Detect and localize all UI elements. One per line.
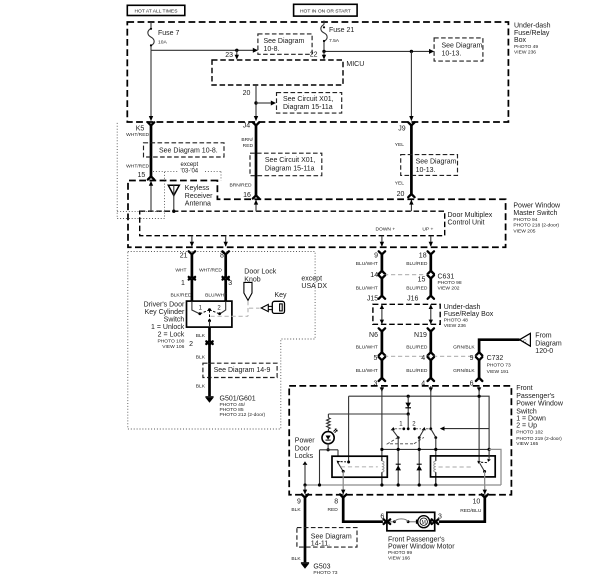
- diode D1 (top center): [405, 396, 411, 414]
- label HOT AT ALL TIMES: [127, 5, 185, 15]
- svg-text:21: 21: [180, 252, 188, 259]
- svg-text:9: 9: [374, 252, 378, 259]
- under-dash fuse/relay box (top): [127, 22, 508, 122]
- switch contacts (key cylinder): [192, 301, 226, 327]
- node bus led: [318, 483, 321, 486]
- svg-text:PHOTO 218 (2-door): PHOTO 218 (2-door): [513, 223, 559, 229]
- wire J16 through box: [429, 304, 433, 324]
- connector C732 row: [373, 355, 510, 375]
- svg-text:See Diagram: See Diagram: [264, 38, 305, 45]
- ground G501/G601: [205, 396, 265, 418]
- svg-text:BLK: BLK: [196, 355, 206, 361]
- svg-text:2 = Lock: 2 = Lock: [158, 331, 185, 338]
- wire 16 into multiplex unit: [254, 200, 258, 211]
- see-diagram box 14-9: [203, 363, 277, 377]
- keyless receiver antenna: [168, 185, 179, 213]
- svg-text:WHT/RED: WHT/RED: [199, 267, 222, 273]
- svg-text:GRN/BLK: GRN/BLK: [453, 345, 475, 351]
- wire arrow into See Diagram 10-8: [253, 48, 258, 53]
- svg-text:BLK: BLK: [196, 384, 206, 390]
- wire junction row y449: [382, 448, 489, 450]
- connector 2 inline (BLK): [189, 341, 213, 378]
- relay box left (down relay): [332, 456, 387, 477]
- wire bus B: [328, 413, 408, 415]
- svg-text:See Diagram: See Diagram: [311, 534, 352, 541]
- svg-text:VIEW 191: VIEW 191: [487, 369, 509, 375]
- wire J15 through box: [380, 304, 384, 324]
- svg-text:14: 14: [370, 272, 378, 279]
- node bus pin9: [303, 483, 306, 486]
- svg-text:VIEW 205: VIEW 205: [513, 228, 535, 234]
- node fuse21 junction: [322, 50, 325, 53]
- svg-text:except: except: [181, 162, 199, 168]
- svg-text:Knob: Knob: [244, 276, 260, 283]
- wire 22 drop into MICU: [322, 51, 326, 59]
- svg-text:USA DX: USA DX: [301, 283, 327, 290]
- svg-text:9: 9: [297, 498, 301, 505]
- connector K5 (thick WHT/RED wire): [126, 122, 154, 179]
- wire coil drop right: [435, 438, 437, 456]
- key symbol: [261, 301, 284, 313]
- wire 21 output: [190, 236, 194, 247]
- dotted except-USA-DX region: [128, 252, 315, 430]
- svg-text:MICU: MICU: [346, 61, 364, 68]
- wire BLK to ground: [196, 378, 210, 397]
- label Power Window Master Switch: [513, 203, 561, 235]
- label Front Passenger's Power Window Motor: [388, 536, 455, 561]
- svg-text:PHOTO 212 (2-door): PHOTO 212 (2-door): [220, 412, 266, 418]
- wire 23 drop into MICU: [225, 50, 239, 59]
- connector C631 row: [370, 272, 462, 292]
- node j449 c: [418, 448, 421, 451]
- svg-text:GRN/BLK: GRN/BLK: [453, 368, 475, 374]
- svg-text:VIEW 236: VIEW 236: [514, 49, 536, 55]
- wire UP+ output: [422, 227, 433, 247]
- svg-text:BLK/RED: BLK/RED: [170, 292, 191, 298]
- svg-text:N6: N6: [369, 332, 378, 339]
- see-diagram box 10-13 (J9): [401, 155, 458, 176]
- svg-text:15: 15: [138, 172, 146, 179]
- fuse F7 (Fuse 7 10A): [148, 22, 180, 50]
- front passenger's power window switch box: [289, 386, 511, 495]
- svg-text:VIEW 106: VIEW 106: [162, 344, 184, 350]
- svg-text:Switch: Switch: [516, 409, 537, 416]
- wire BLU/RED to pin4: [406, 357, 434, 387]
- node pin6 on bus A: [478, 395, 481, 398]
- label Keyless Receiver Antenna: [185, 185, 213, 207]
- mech link key-cyl to knob: [211, 315, 249, 317]
- connector J9 (thick YEL wire): [395, 122, 415, 198]
- wire ground bus: [305, 484, 501, 486]
- label except USA DX: [301, 276, 327, 291]
- wire BLU/WHT C631 to J15: [356, 275, 385, 302]
- from-diagram arrow symbol: [520, 333, 531, 346]
- svg-text:BLU/RED: BLU/RED: [406, 261, 428, 267]
- svg-text:VIEW 236: VIEW 236: [444, 323, 466, 329]
- resistor R1 (LED series): [327, 414, 331, 432]
- diode D2: [395, 464, 401, 470]
- svg-text:BLU/WHT: BLU/WHT: [356, 345, 378, 351]
- node bus B diode tap: [407, 412, 410, 415]
- connector pin3 inline (driver key cyl): [205, 276, 232, 301]
- svg-text:Antenna: Antenna: [185, 200, 211, 207]
- svg-text:2: 2: [189, 341, 193, 348]
- wire rocker feed from pin6 branch: [440, 426, 489, 430]
- svg-text:BRN/RED: BRN/RED: [229, 182, 251, 188]
- node j449 a: [380, 448, 383, 451]
- svg-text:Key Cylinder: Key Cylinder: [145, 309, 185, 316]
- svg-text:Power Window: Power Window: [516, 400, 564, 407]
- label Door Lock Knob: [244, 269, 276, 284]
- svg-text:See Diagram 10-8.: See Diagram 10-8.: [159, 147, 218, 154]
- wire fuse7 continues down to K5: [150, 50, 152, 117]
- node bus d3: [418, 483, 421, 486]
- svg-text:8: 8: [334, 498, 338, 505]
- node bus d2: [397, 483, 400, 486]
- node fuse7-23 junction: [235, 49, 238, 52]
- wire 20 into multiplex unit: [409, 200, 413, 211]
- svg-text:VIEW 166: VIEW 166: [388, 555, 410, 561]
- svg-text:1 = Unlock: 1 = Unlock: [151, 324, 185, 331]
- see-diagram box 10-13 (top): [434, 38, 483, 61]
- svg-text:BLK: BLK: [291, 507, 301, 513]
- see-diagram box 10-8 (K5): [144, 143, 225, 157]
- see-circuit box X01 (J4): [250, 153, 322, 176]
- svg-text:J9: J9: [398, 125, 406, 132]
- wire arrow into See Diagram 10-13: [429, 49, 434, 54]
- wire pin3 vertical run: [381, 389, 383, 456]
- svg-text:See Diagram: See Diagram: [442, 43, 483, 50]
- door lock knob symbol: [244, 282, 260, 316]
- svg-text:20: 20: [397, 191, 405, 198]
- connector pin 21 (WHT wire): [175, 251, 195, 276]
- node bus coil R: [434, 483, 437, 486]
- svg-text:10: 10: [473, 498, 481, 505]
- connector pin 9 (BLU/WHT): [356, 251, 385, 274]
- svg-text:Master Switch: Master Switch: [513, 210, 557, 217]
- node bus coil L: [380, 483, 383, 486]
- label except '03-'04: [181, 162, 199, 175]
- svg-text:Passenger's: Passenger's: [516, 393, 555, 400]
- svg-text:PHOTO 100: PHOTO 100: [157, 339, 184, 345]
- svg-text:3: 3: [228, 280, 232, 287]
- front passenger's power window motor M1: [380, 512, 442, 531]
- svg-text:Fuse 21: Fuse 21: [329, 27, 354, 34]
- fuse F21 (Fuse 21 7.5A): [321, 21, 355, 52]
- connector pin 10 bottom (RED/BLU): [439, 494, 488, 521]
- connector pin 8 (WHT/RED wire): [199, 251, 229, 276]
- node 20 junction: [254, 101, 257, 104]
- svg-text:5: 5: [373, 355, 377, 362]
- wire relay right common to pin 10: [484, 472, 486, 497]
- svg-text:10-8.: 10-8.: [264, 46, 280, 53]
- dotted except-03-04 region: [117, 123, 221, 219]
- node j449 e: [488, 448, 491, 451]
- svg-text:1: 1: [181, 280, 185, 287]
- svg-text:G501/G601: G501/G601: [220, 396, 256, 403]
- svg-text:BLU/WHT: BLU/WHT: [356, 285, 378, 291]
- wire LED bottom tee: [320, 443, 339, 485]
- svg-text:Diagram 15-11a: Diagram 15-11a: [283, 104, 333, 111]
- svg-text:J4: J4: [243, 123, 251, 130]
- LED indicator lamp: [322, 428, 338, 443]
- wire grey wrap to bus: [489, 449, 501, 485]
- svg-text:Receiver: Receiver: [185, 193, 213, 200]
- wire pin9 drop: [304, 485, 306, 494]
- svg-text:23: 23: [225, 52, 233, 59]
- svg-text:J16: J16: [407, 295, 418, 302]
- label From Diagram 120-0: [535, 332, 562, 355]
- svg-text:G503: G503: [313, 563, 330, 570]
- relay left coil: [382, 456, 384, 485]
- wire pin9 box-exit arrow: [303, 490, 307, 495]
- svg-text:Power: Power: [295, 438, 316, 445]
- svg-text:K5: K5: [136, 125, 145, 132]
- wire pin6 into box: [478, 386, 480, 392]
- door multiplex control unit box: [140, 211, 493, 236]
- wire From Diagram 120-0 (GRN/BLK): [453, 340, 519, 356]
- svg-text:WHT/RED: WHT/RED: [126, 164, 149, 170]
- svg-text:J15: J15: [367, 295, 378, 302]
- connector pin 9 bottom (BLK): [291, 494, 308, 562]
- wire J9 drop: [410, 51, 412, 117]
- svg-text:PHOTO 99: PHOTO 99: [388, 550, 412, 556]
- svg-text:Front Passenger's: Front Passenger's: [388, 536, 445, 543]
- svg-text:Under-dash: Under-dash: [514, 22, 551, 29]
- svg-text:BLU/RED: BLU/RED: [406, 368, 428, 374]
- label Driver's Door Key Cylinder Switch: [144, 302, 185, 350]
- svg-text:BLU/WHT: BLU/WHT: [356, 368, 378, 374]
- svg-text:Fuse/Relay Box: Fuse/Relay Box: [444, 311, 494, 318]
- svg-text:Door Multiplex: Door Multiplex: [448, 212, 493, 219]
- svg-text:PHOTO 102: PHOTO 102: [516, 430, 543, 436]
- wire GRN/BLK to pin6: [453, 357, 482, 387]
- svg-text:7.5A: 7.5A: [329, 38, 340, 44]
- svg-text:10-13.: 10-13.: [442, 51, 462, 58]
- svg-text:18: 18: [419, 252, 427, 259]
- wire 15 into multiplex unit: [149, 181, 153, 211]
- svg-text:BLU/WHT: BLU/WHT: [356, 261, 378, 267]
- svg-text:WHT: WHT: [175, 267, 186, 273]
- svg-text:RED/BLU: RED/BLU: [460, 508, 482, 514]
- svg-text:Door: Door: [295, 446, 311, 453]
- svg-text:Diagram 15-11a: Diagram 15-11a: [265, 165, 315, 172]
- svg-text:WHT/RED: WHT/RED: [126, 132, 149, 138]
- svg-text:Under-dash: Under-dash: [444, 304, 481, 311]
- wire pin8 box-exit arrow: [341, 490, 345, 495]
- svg-text:From: From: [535, 332, 552, 339]
- wire pin6 vertical run: [478, 389, 480, 462]
- wire 20 out of MICU down to J4: [243, 85, 259, 121]
- node j449 b: [397, 448, 400, 451]
- svg-text:14-11.: 14-11.: [311, 541, 330, 548]
- svg-text:VIEW 165: VIEW 165: [516, 441, 538, 447]
- relay left contacts: [337, 461, 378, 473]
- wire BLU/WHT to pin3: [356, 357, 385, 387]
- svg-text:PHOTO 48: PHOTO 48: [444, 318, 468, 324]
- svg-text:BRN/: BRN/: [241, 137, 253, 143]
- svg-text:C732: C732: [487, 355, 504, 362]
- svg-text:Keyless: Keyless: [185, 185, 210, 192]
- svg-text:HOT IN ON OR START: HOT IN ON OR START: [300, 9, 351, 15]
- label Under-dash Fuse/Relay Box PHOTO 48 VIEW 236: [444, 304, 494, 329]
- wire BLK from key cylinder: [196, 327, 210, 341]
- wire diode drop 1: [397, 438, 399, 485]
- svg-text:120-0: 120-0: [535, 348, 553, 355]
- svg-text:Driver's Door: Driver's Door: [144, 302, 185, 309]
- driver's door key cylinder switch box: [187, 301, 232, 327]
- svg-text:20: 20: [243, 90, 251, 97]
- svg-text:BLU/RED: BLU/RED: [406, 285, 428, 291]
- wire pin4 vertical run: [430, 389, 432, 428]
- svg-text:PHOTO 94: PHOTO 94: [513, 217, 537, 223]
- wire pin4 into box: [430, 386, 432, 392]
- svg-text:except: except: [301, 276, 322, 283]
- rocker switch contacts 1/2: [388, 421, 438, 444]
- svg-text:YEL: YEL: [395, 142, 405, 148]
- svg-text:BLU/WHT: BLU/WHT: [205, 292, 227, 298]
- svg-text:UP +: UP +: [422, 227, 433, 233]
- svg-text:Box: Box: [514, 37, 527, 44]
- ground G503: [301, 562, 338, 576]
- label Front Passenger's Power Window Switch: [516, 385, 564, 447]
- wire fuse21 horizontal to 10-13: [324, 50, 430, 52]
- node j449 d: [434, 448, 437, 451]
- svg-text:Key: Key: [275, 292, 288, 299]
- svg-text:'03-'04: '03-'04: [181, 169, 199, 175]
- see-diagram box 14-11: [297, 528, 357, 548]
- diode D3: [416, 464, 422, 470]
- svg-text:Door Lock: Door Lock: [244, 269, 276, 276]
- node bus A diode tap: [407, 395, 410, 398]
- power window master switch box (stepped outline): [128, 181, 506, 248]
- svg-text:N19: N19: [414, 332, 427, 339]
- svg-text:PHOTO 98: PHOTO 98: [438, 280, 462, 286]
- MICU box: [212, 60, 364, 85]
- wire rocker common drop: [407, 414, 409, 428]
- svg-text:HOT AT ALL TIMES: HOT AT ALL TIMES: [135, 9, 179, 15]
- svg-text:9: 9: [470, 355, 474, 362]
- svg-text:Fuse 7: Fuse 7: [158, 30, 180, 37]
- svg-text:15: 15: [418, 277, 426, 284]
- wire arrow at K5 boundary: [149, 116, 153, 121]
- svg-text:10A: 10A: [158, 40, 167, 46]
- label Under-dash Fuse/Relay Box PHOTO 49 VIEW 236: [514, 22, 551, 55]
- svg-text:See Circuit X01,: See Circuit X01,: [265, 157, 316, 164]
- svg-text:2 = Up: 2 = Up: [516, 422, 537, 429]
- svg-text:Power Window: Power Window: [513, 203, 561, 210]
- wire pin10 box-exit arrow: [483, 490, 487, 495]
- svg-text:C631: C631: [438, 274, 455, 281]
- svg-text:22: 22: [310, 52, 318, 59]
- svg-text:VIEW 202: VIEW 202: [438, 286, 460, 292]
- label HOT IN ON OR START: [294, 4, 358, 16]
- svg-text:DOWN +: DOWN +: [375, 227, 395, 233]
- svg-text:YEL: YEL: [395, 180, 405, 186]
- relay right contacts: [439, 449, 491, 473]
- svg-text:Power Window Motor: Power Window Motor: [388, 543, 455, 550]
- under-dash fuse/relay box (middle): [373, 304, 440, 324]
- wire left drop from bus A: [348, 396, 350, 462]
- svg-text:RED: RED: [243, 143, 254, 149]
- wire BLU/RED C631 to J16: [406, 275, 434, 302]
- svg-text:RED: RED: [327, 507, 338, 513]
- connector N6 column: [356, 328, 385, 355]
- svg-text:PHOTO 49: PHOTO 49: [514, 44, 538, 50]
- svg-text:See Diagram 14-9: See Diagram 14-9: [214, 367, 271, 374]
- svg-text:Locks: Locks: [295, 453, 314, 460]
- connector pin1 inline (driver key cyl): [170, 276, 195, 301]
- wire pin3 into box: [380, 386, 384, 392]
- svg-text:BLK: BLK: [196, 333, 206, 339]
- wire diode drop 2: [418, 438, 420, 485]
- wire arrow at J9 boundary: [409, 116, 413, 121]
- see-diagram box 10-8 (top): [258, 34, 312, 54]
- relay box right (up relay): [431, 456, 496, 477]
- wire relay left common to pin 8: [342, 471, 344, 496]
- svg-text:PHOTO 73: PHOTO 73: [487, 363, 511, 369]
- svg-text:Front: Front: [516, 385, 532, 392]
- node J9 branch junction: [410, 50, 413, 53]
- svg-text:PHOTO 73: PHOTO 73: [313, 570, 337, 576]
- svg-text:16: 16: [243, 192, 251, 199]
- svg-text:10-13.: 10-13.: [416, 167, 436, 174]
- svg-text:PHOTO 219 (2-door): PHOTO 219 (2-door): [516, 436, 562, 442]
- connector J4 (thick BRN/RED wire): [229, 122, 259, 199]
- svg-text:Diagram: Diagram: [535, 340, 562, 347]
- wire fuse7 output horizontal: [151, 49, 254, 51]
- svg-text:BLU/RED: BLU/RED: [406, 345, 428, 351]
- wire bus A: [349, 396, 490, 449]
- connector pin 8 bottom (RED): [327, 494, 382, 521]
- power door locks arrow: [303, 461, 308, 485]
- svg-text:M: M: [422, 520, 426, 526]
- wire DOWN+ output: [375, 227, 395, 247]
- svg-text:Switch: Switch: [164, 317, 185, 324]
- wire arrow into See Circuit X01: [256, 102, 272, 104]
- see-circuit box X01 (top): [277, 93, 342, 114]
- connector N19 column: [406, 328, 434, 355]
- label Power Door Locks: [295, 438, 316, 461]
- svg-text:See Diagram: See Diagram: [416, 159, 457, 166]
- svg-text:4: 4: [421, 355, 425, 362]
- svg-text:See Circuit X01,: See Circuit X01,: [283, 96, 334, 103]
- svg-text:BLK: BLK: [291, 556, 301, 562]
- relay right coil: [434, 456, 436, 485]
- wire 8 output: [224, 236, 228, 247]
- connector pin 18 (BLU/RED): [406, 251, 434, 274]
- svg-text:Control Unit: Control Unit: [448, 220, 485, 227]
